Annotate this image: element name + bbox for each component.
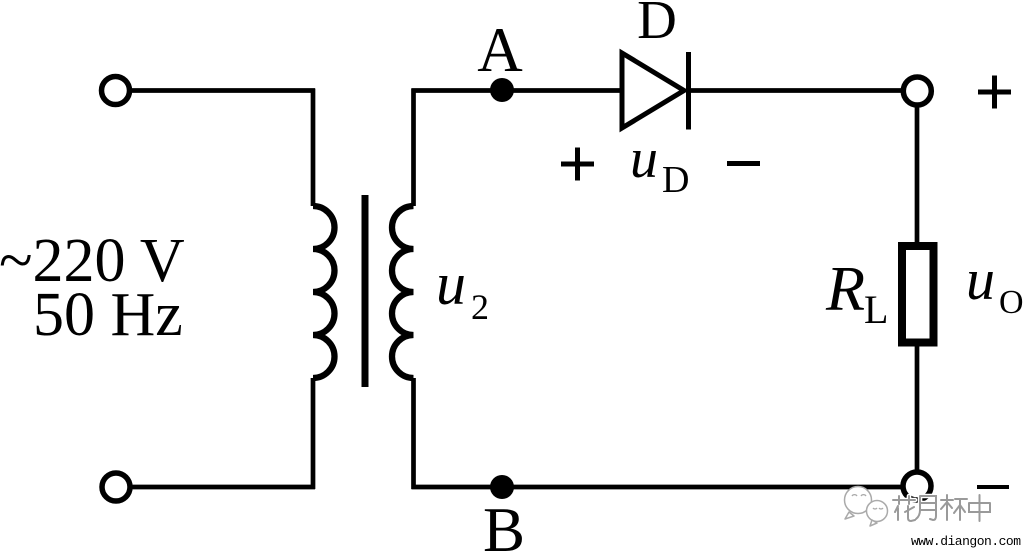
label + (output polarity)	[978, 90, 1011, 95]
svg-text:www.diangon.com: www.diangon.com	[911, 534, 1021, 549]
svg-text:O: O	[999, 284, 1024, 321]
wire (top: diode to output)	[689, 88, 904, 93]
resistor RL	[902, 246, 934, 343]
svg-text:D: D	[662, 159, 689, 201]
wire (right vertical above resistor)	[915, 105, 920, 246]
label - (cathode polarity)	[727, 161, 760, 166]
svg-text:2: 2	[471, 287, 489, 327]
node A	[490, 78, 514, 102]
svg-text:B: B	[483, 495, 525, 552]
wire (bottom: secondary to output)	[412, 485, 904, 490]
diode D cathode bar	[686, 52, 691, 130]
svg-text:u: u	[630, 128, 658, 190]
transformer core	[362, 195, 369, 387]
diode D	[622, 53, 684, 128]
wire (right vertical below resistor)	[915, 342, 920, 473]
wire (bottom-left horizontal)	[131, 485, 315, 490]
svg-text:50 Hz: 50 Hz	[33, 281, 183, 349]
svg-text:R: R	[825, 253, 865, 324]
inductor primary winding	[313, 206, 335, 378]
terminal (input top-left)	[102, 77, 130, 105]
wire (primary vertical top)	[311, 89, 316, 207]
label + (anode polarity)	[561, 162, 594, 167]
inductor secondary winding	[392, 206, 414, 378]
node B	[490, 475, 514, 499]
label - (output polarity)	[977, 485, 1009, 489]
wire (top-left horizontal)	[131, 88, 315, 93]
svg-text:A: A	[477, 15, 523, 85]
svg-text:D: D	[637, 0, 677, 50]
terminal (output top-right)	[903, 77, 931, 105]
watermark text 花月杯中	[893, 495, 990, 521]
terminal (output bottom-right)	[903, 472, 931, 500]
watermark icon (speech bubbles)	[845, 487, 888, 527]
svg-text:L: L	[864, 287, 888, 332]
wire (secondary vertical top)	[411, 89, 416, 207]
wire (secondary vertical bottom)	[411, 378, 416, 489]
wire (top: secondary to diode)	[412, 88, 623, 93]
svg-text:u: u	[966, 247, 995, 312]
svg-text:u: u	[436, 251, 466, 317]
wire (primary vertical bottom)	[311, 378, 316, 489]
terminal (input bottom-left)	[102, 473, 130, 501]
